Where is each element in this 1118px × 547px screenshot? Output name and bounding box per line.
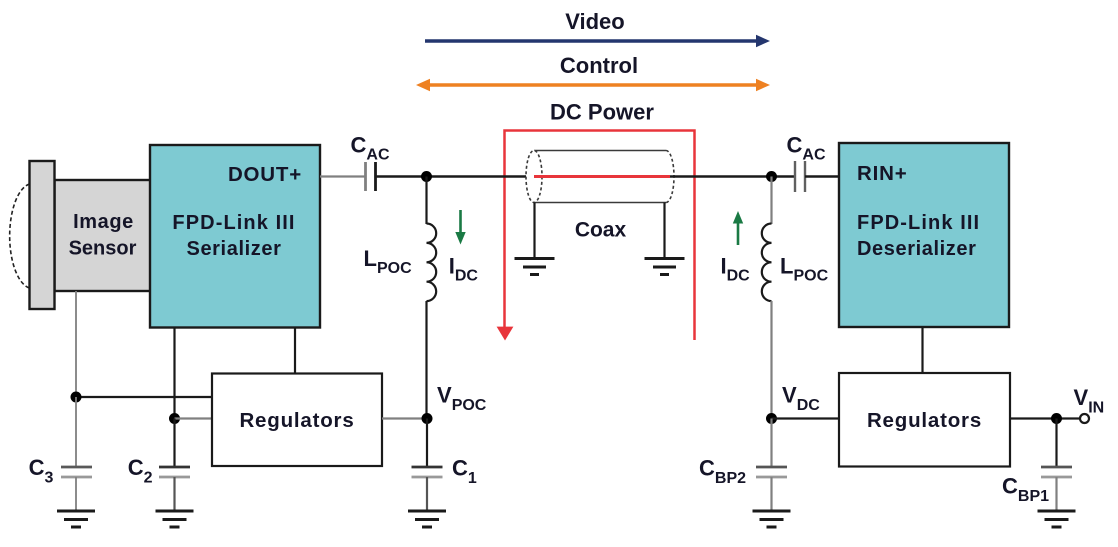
node junction C2 [169,413,180,424]
svg-text:FPD-Link III: FPD-Link III [857,212,980,234]
wire sensor rail to regulators (left horizontal) [76,396,212,398]
wire CAC to coax [376,175,531,178]
svg-text:Regulators: Regulators [867,409,982,432]
ground C2 [156,511,194,527]
wire serializer bottom-left to C2 [173,328,175,419]
wire C3 node down [75,397,77,466]
coax cylinder body [526,151,674,203]
wire image sensor to C3 rail [75,291,77,397]
wire regulators right to VIN [1010,417,1080,419]
wire CBP1 to ground [1055,477,1057,510]
svg-text:RIN+: RIN+ [857,162,907,185]
capacitor CBP1 [1041,467,1072,477]
wire VDC to regulators right [772,417,840,419]
capacitor CBP2 [756,467,787,477]
ground C3 [57,511,95,527]
svg-text:DC Power: DC Power [550,100,654,125]
node junction left POC [421,171,432,182]
coax center conductor (red) [534,175,670,178]
signal arrow Video [425,35,770,47]
regulators box right [839,373,1010,467]
svg-text:Video: Video [565,9,625,34]
inductor LPOC right [762,224,772,302]
wire VDC to CBP2 [770,419,772,467]
wire C1 to ground [426,477,428,510]
FPD-Link III Serializer U1 [150,145,320,328]
FPD-Link III Deserializer U2 [839,143,1009,327]
wire regulators to VPOC node [382,417,427,419]
wire C3 to ground [75,477,77,510]
signal arrow Control [416,79,770,91]
wire coax shield to ground left [533,203,535,259]
svg-text:Regulators: Regulators [239,409,354,432]
svg-text:Serializer: Serializer [187,238,282,260]
wire C2 node down [173,419,175,467]
svg-text:DOUT+: DOUT+ [228,163,302,186]
node junction right POC [766,171,777,182]
wire coax to right junction [670,175,794,178]
wire coax shield to ground right [663,203,665,259]
svg-text:Sensor: Sensor [69,238,137,260]
wire C2 to ground [173,477,175,510]
ground C1 [408,511,446,527]
svg-text:Deserializer: Deserializer [857,238,977,260]
wire CAC right to deserializer RIN+ [805,175,839,178]
svg-text:FPD-Link III: FPD-Link III [172,212,295,234]
svg-text:Image: Image [73,211,134,233]
ground CBP1 [1038,511,1076,527]
DC power loop arrow [497,131,695,341]
capacitor CAC left [366,162,376,191]
node VPOC [422,413,433,424]
wire serializer DOUT+ to CAC [320,175,365,177]
wire serializer bottom-right to regulators top [294,328,296,374]
camera barrel [30,161,55,309]
svg-text:Control: Control [560,53,638,78]
capacitor C1 [412,467,443,477]
inductor LPOC left [427,224,437,302]
ground CBP2 [753,511,791,527]
regulators box left [212,374,382,467]
wire LPOC right to VDC node [770,301,772,419]
ground coax right [645,259,685,275]
capacitor C2 [159,467,190,477]
wire junction down to LPOC [425,177,427,225]
wire LPOC to VPOC node [425,301,427,419]
node junction CBP1 [1051,413,1062,424]
wire junction down to LPOC right [770,177,772,225]
camera lens arc [10,184,30,288]
wire CBP1 node down [1055,419,1057,467]
image sensor box [55,180,152,291]
wire deserializer bottom to regulators right [921,327,923,373]
node junction sensor rail [71,392,82,403]
wire C2 node to regulators [175,417,213,419]
capacitor C3 [61,467,92,477]
node VDC [766,413,777,424]
current arrow IDC right (up) [733,211,743,245]
svg-text:Coax: Coax [575,219,627,242]
wire CBP2 to ground [770,477,772,510]
current arrow IDC left (down) [455,210,465,245]
terminal VIN (open circle) [1080,414,1089,423]
capacitor CAC right [795,161,805,192]
wire VPOC to C1 [426,419,428,467]
ground coax left [515,259,555,275]
